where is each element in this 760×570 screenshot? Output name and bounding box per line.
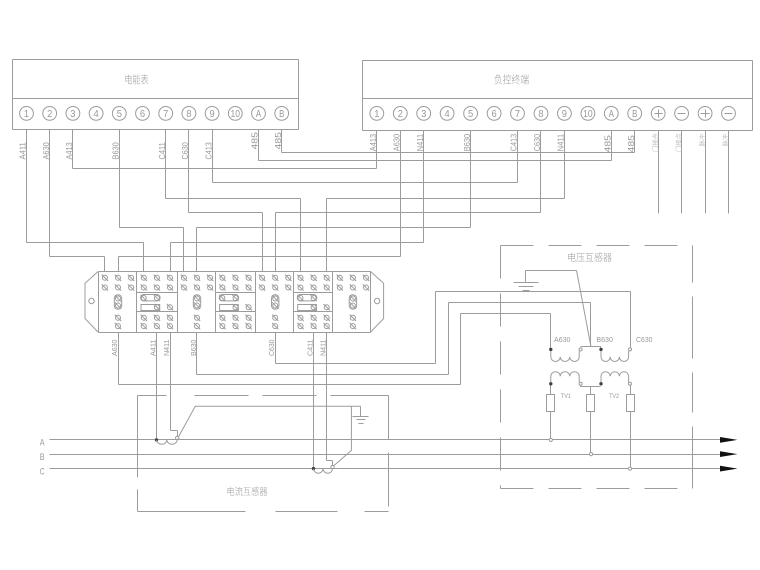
svg-text:6: 6 (492, 109, 498, 120)
svg-text:4: 4 (94, 109, 100, 120)
svg-text:B: B (40, 452, 45, 463)
svg-text:2: 2 (47, 109, 53, 120)
svg-text:N411: N411 (557, 133, 566, 151)
svg-text:A: A (40, 438, 45, 449)
svg-text:7: 7 (163, 109, 169, 120)
svg-text:C: C (40, 466, 45, 477)
svg-text:9: 9 (562, 109, 568, 120)
svg-text:8: 8 (538, 109, 544, 120)
svg-text:C630: C630 (181, 142, 190, 160)
svg-text:B630: B630 (596, 337, 613, 344)
svg-text:1: 1 (24, 109, 30, 120)
svg-text:485: 485 (274, 131, 283, 149)
svg-text:485: 485 (627, 134, 636, 152)
svg-text:5: 5 (468, 109, 474, 120)
svg-text:3: 3 (421, 109, 427, 120)
svg-text:C630: C630 (636, 337, 653, 344)
svg-text:C413: C413 (204, 142, 213, 160)
svg-text:485: 485 (251, 131, 260, 149)
svg-text:C630: C630 (533, 133, 542, 151)
svg-text:9: 9 (210, 109, 216, 120)
svg-text:A413: A413 (65, 142, 74, 160)
svg-text:A: A (609, 109, 614, 120)
svg-text:A630: A630 (392, 133, 401, 151)
svg-text:TV1: TV1 (561, 393, 571, 400)
svg-text:1: 1 (374, 109, 380, 120)
svg-text:6: 6 (140, 109, 146, 120)
svg-text:C411: C411 (158, 142, 167, 160)
svg-text:B: B (632, 109, 637, 120)
svg-text:B: B (279, 109, 284, 120)
svg-text:N411: N411 (319, 340, 328, 357)
svg-text:N411: N411 (416, 133, 425, 151)
svg-text:B630: B630 (112, 142, 121, 160)
svg-text:TV2: TV2 (609, 393, 619, 400)
svg-text:3: 3 (70, 109, 76, 120)
svg-text:C413: C413 (510, 133, 519, 151)
svg-text:C630: C630 (267, 340, 276, 357)
svg-text:10: 10 (583, 109, 593, 120)
svg-text:A411: A411 (149, 340, 158, 357)
svg-text:4: 4 (445, 109, 451, 120)
svg-text:A: A (256, 109, 261, 120)
svg-text:7: 7 (515, 109, 521, 120)
svg-text:8: 8 (186, 109, 192, 120)
svg-text:2: 2 (398, 109, 404, 120)
svg-text:485: 485 (604, 134, 613, 152)
svg-text:A630: A630 (42, 142, 51, 160)
svg-text:B630: B630 (189, 340, 198, 357)
svg-text:B630: B630 (463, 133, 472, 151)
svg-text:A630: A630 (554, 337, 571, 344)
svg-text:A413: A413 (369, 133, 378, 151)
svg-text:A411: A411 (19, 142, 28, 160)
svg-text:10: 10 (231, 109, 241, 120)
svg-text:N411: N411 (162, 340, 171, 357)
svg-text:C411: C411 (305, 340, 314, 357)
svg-text:A630: A630 (110, 340, 119, 357)
svg-text:5: 5 (117, 109, 123, 120)
